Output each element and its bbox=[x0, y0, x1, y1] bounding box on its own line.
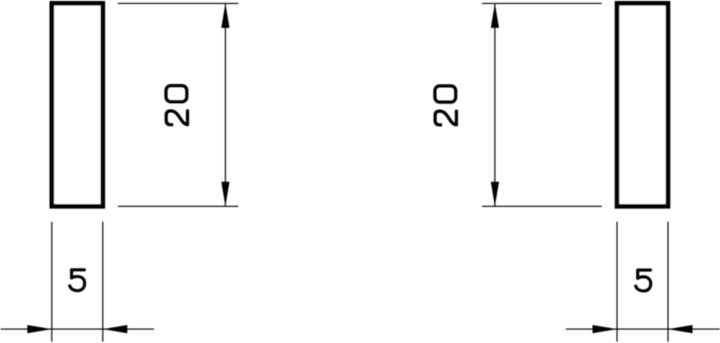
dimension line vertical (left figure, dim 20) bbox=[224, 3, 226, 206]
digit 0 of left 20 bbox=[166, 86, 187, 102]
digit 0 of right 20 bbox=[435, 86, 456, 102]
arrowhead down (right figure, dim 20) bbox=[491, 182, 499, 207]
extension line bottom (left figure, dim 20) bbox=[118, 205, 239, 207]
part outline right rectangle 5x20 bbox=[617, 3, 668, 206]
arrowhead up (left figure, dim 20) bbox=[221, 3, 229, 28]
dimension line middle segment (left figure, dim 5) bbox=[52, 328, 103, 330]
arrowhead down (left figure, dim 20) bbox=[221, 182, 229, 207]
arrowhead pointing right (right figure, dim 5) bbox=[593, 325, 618, 333]
digit 2 of right 20 bbox=[435, 111, 456, 125]
dimension line right tail (left figure, dim 5) bbox=[103, 328, 154, 330]
dimension line vertical (right figure, dim 20) bbox=[494, 3, 496, 206]
arrowhead pointing right (left figure, dim 5) bbox=[27, 325, 52, 333]
extension line left vertical (right figure, dim 5) bbox=[616, 222, 618, 342]
extension line right vertical (right figure, dim 5) bbox=[667, 222, 669, 342]
dimension line left tail (right figure, dim 5) bbox=[566, 328, 617, 330]
digit 2 of left 20 bbox=[166, 111, 187, 125]
dimension text 5 (left figure) bbox=[70, 270, 85, 291]
extension line right vertical (left figure, dim 5) bbox=[102, 222, 104, 342]
dimension line left tail (left figure, dim 5) bbox=[1, 328, 52, 330]
extension line top (left figure, dim 20) bbox=[118, 2, 239, 4]
dimension text 20 (right figure) bbox=[435, 86, 457, 125]
part outline left rectangle 5x20 bbox=[52, 3, 103, 206]
dimension text 5 (right figure) bbox=[636, 270, 651, 291]
arrowhead up (right figure, dim 20) bbox=[491, 3, 499, 28]
arrowhead pointing left (right figure, dim 5) bbox=[668, 325, 693, 333]
extension line bottom (right figure, dim 20) bbox=[482, 205, 602, 207]
extension line left vertical (left figure, dim 5) bbox=[51, 222, 53, 342]
dimension line right tail (right figure, dim 5) bbox=[668, 328, 720, 330]
arrowhead pointing left (left figure, dim 5) bbox=[103, 325, 128, 333]
extension line top (right figure, dim 20) bbox=[482, 2, 602, 4]
dimension line middle segment (right figure, dim 5) bbox=[617, 328, 668, 330]
dimension text 20 (left figure) bbox=[166, 86, 188, 125]
